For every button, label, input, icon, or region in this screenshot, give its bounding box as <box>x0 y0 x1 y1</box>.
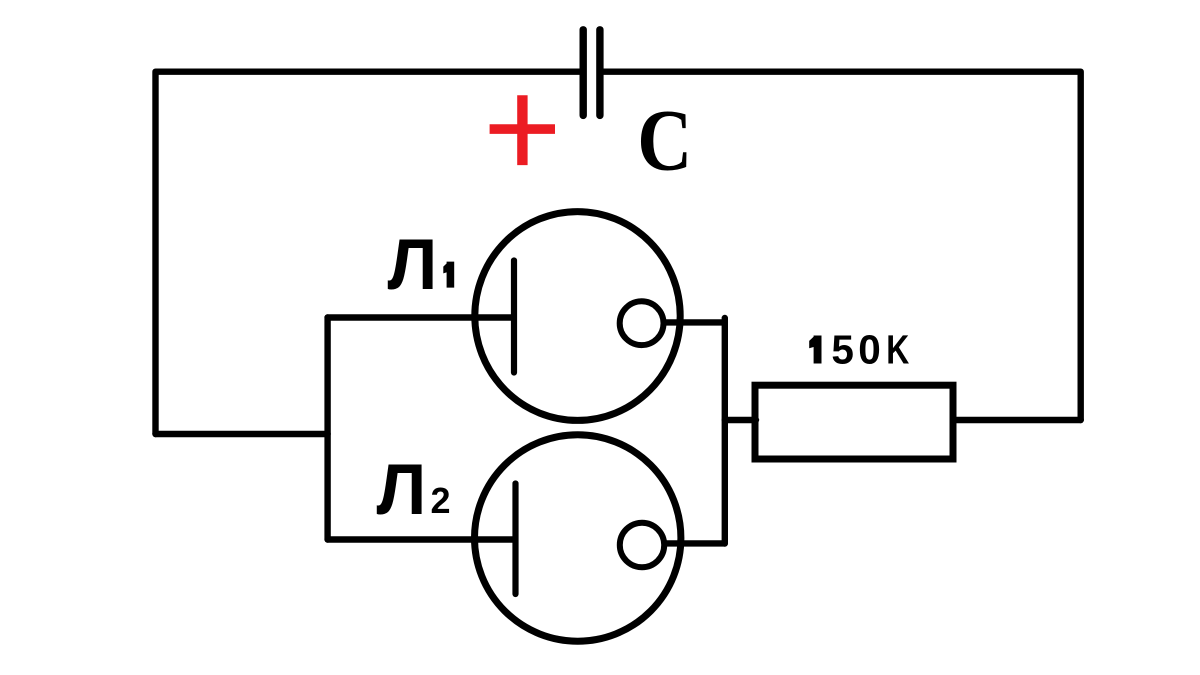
wire: left outer rail up and top wire to capacitor left plate <box>156 72 582 434</box>
capacitor C: right plate <box>596 30 603 116</box>
lamp Л2: envelope circle <box>475 435 681 641</box>
label Л2 (lamp 2 reference designator) <box>377 451 451 530</box>
polarity mark: red plus sign for capacitor <box>490 95 555 165</box>
wire: lamp L2 right lead (anode to inner-right rail) <box>665 540 725 546</box>
wire: bottom-left horizontal (left rail bottom to inner-left rail junction) <box>156 431 328 437</box>
lamp Л1: anode small circle electrode <box>620 301 664 345</box>
svg-text:C: C <box>637 93 692 190</box>
svg-text:Л: Л <box>388 226 438 305</box>
wire: lamp L1 right lead (anode to inner-right rail) <box>665 319 725 325</box>
wire: lamp L2 left lead <box>328 536 515 542</box>
lamp Л2: cathode electrode bar <box>512 484 518 595</box>
wire: inner-right vertical rail <box>722 318 728 544</box>
wire: resistor right lead (resistor to right rail) <box>953 417 1081 423</box>
lamp Л2: anode small circle electrode <box>620 523 664 567</box>
svg-text:2: 2 <box>431 480 451 521</box>
lamp Л1: cathode electrode bar <box>511 261 517 373</box>
label Л1 (lamp 1 reference designator) <box>388 226 455 305</box>
label 150K (resistor value) <box>809 327 909 373</box>
label C (capacitor value label) <box>637 93 692 190</box>
wire: resistor left lead (inner-right rail to resistor) <box>725 417 756 423</box>
wire: inner-left vertical rail <box>324 318 330 540</box>
resistor R 150K: body rectangle <box>755 385 953 459</box>
svg-text:Л: Л <box>377 451 427 530</box>
lamp Л1: envelope circle <box>475 212 680 421</box>
capacitor C: left plate <box>580 30 587 116</box>
svg-text:K: K <box>886 327 909 373</box>
wire: lamp L1 left lead <box>328 314 513 320</box>
wire: top wire from capacitor right plate and right outer rail down to resistor lead <box>602 72 1081 420</box>
svg-text:50: 50 <box>831 327 885 373</box>
